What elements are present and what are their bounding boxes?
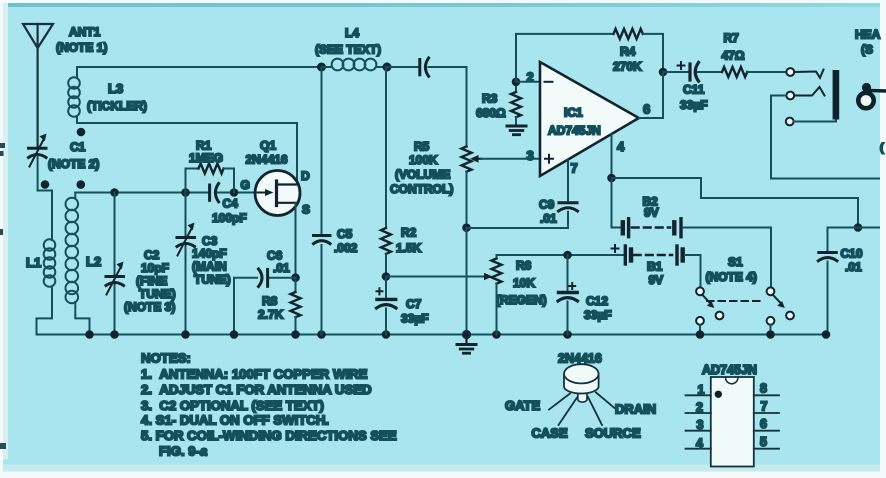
node dot (floating, below L3) — [77, 128, 86, 137]
node L4 left — [317, 63, 326, 72]
node pin2/R3/R4 — [512, 78, 521, 87]
svg-text:(NOTE 3): (NOTE 3) — [124, 300, 175, 314]
wire L1 bottom to ground bus — [37, 287, 53, 335]
inductor L4 — [315, 26, 387, 70]
wire feedback (pin2 up over op-amp) — [516, 34, 614, 82]
capacitor C5 — [314, 67, 358, 335]
capacitor C1 (variable, on antenna lead) — [29, 134, 100, 172]
svg-text:33µF: 33µF — [584, 308, 612, 322]
node bus/R6 — [492, 330, 501, 339]
node bus/ground — [462, 330, 471, 339]
node bus/C3 — [181, 330, 190, 339]
headphone plug icon — [858, 83, 886, 108]
node pin4 — [607, 174, 616, 183]
svg-text:C2: C2 — [144, 248, 160, 262]
svg-text:B1: B1 — [647, 260, 663, 274]
2N4416 package drawing — [505, 352, 656, 441]
resistor R7 — [722, 31, 748, 77]
node output/C11 — [659, 68, 668, 77]
svg-text:L3: L3 — [108, 81, 123, 96]
node bus/S1a — [696, 330, 705, 339]
wire L3 top lead — [76, 67, 78, 78]
capacitor C12 (electrolytic) — [558, 255, 612, 335]
svg-text:33µF: 33µF — [680, 98, 708, 112]
node bus/C5 — [317, 330, 326, 339]
resistor R3 — [476, 82, 521, 125]
wire antenna to tank corner — [37, 157, 39, 191]
wire R5 node to ground bus — [466, 228, 468, 335]
node bus/R8 — [291, 330, 300, 339]
wire C9 to R5 node — [467, 212, 569, 228]
svg-text:CONTROL): CONTROL) — [390, 182, 453, 196]
node tank/C2 — [110, 188, 119, 197]
svg-text:.01: .01 — [273, 261, 290, 275]
svg-text:R4: R4 — [620, 45, 636, 59]
wire jack return — [771, 96, 879, 179]
wire B2 to S1 pole 2 — [683, 228, 771, 288]
svg-text:R6: R6 — [516, 259, 532, 273]
svg-text:6: 6 — [760, 417, 767, 431]
wire Q1 source to node — [295, 203, 297, 278]
potentiometer R5 (volume control) — [390, 140, 481, 228]
wire B2 drop — [612, 178, 622, 228]
resistor R2 — [381, 67, 422, 277]
svg-text:HEA: HEA — [855, 28, 881, 42]
svg-text:1MEG: 1MEG — [189, 151, 223, 165]
svg-text:C10: C10 — [841, 247, 863, 261]
wire pin 7 to C9 — [567, 160, 569, 201]
node bus/C12 — [563, 330, 572, 339]
node bus/C6 — [230, 330, 239, 339]
node gate/R1/C4 — [230, 188, 239, 197]
svg-text:(MAIN: (MAIN — [192, 260, 227, 274]
wire regen node to R6 wiper — [386, 276, 486, 278]
resistor R1 — [186, 139, 235, 193]
svg-text:S1: S1 — [728, 255, 743, 269]
svg-text:TUNE): TUNE) — [194, 273, 231, 287]
wire L2 top to tank rail — [74, 193, 76, 199]
node bus/C7 — [382, 330, 391, 339]
svg-text:(FINE: (FINE — [136, 274, 167, 288]
capacitor C4 — [210, 184, 247, 226]
svg-text:3: 3 — [527, 148, 534, 163]
svg-text:7: 7 — [761, 400, 768, 414]
svg-text:L4: L4 — [345, 26, 359, 40]
wire tank rail (L2 to C4) — [75, 192, 208, 194]
capacitor C11 (electrolytic) — [663, 62, 708, 112]
svg-text:2: 2 — [696, 401, 703, 415]
svg-text:C11: C11 — [683, 83, 705, 97]
battery B2 — [623, 195, 681, 237]
wire C8 to R5 top — [429, 67, 467, 147]
inductor L2 — [66, 198, 102, 304]
wire C6 left to ground bus — [233, 278, 235, 335]
svg-text:3. C2 OPTIONAL (SEE TEXT): 3. C2 OPTIONAL (SEE TEXT) — [141, 398, 324, 413]
svg-text:4. S1- DUAL ON OFF SWITCH.: 4. S1- DUAL ON OFF SWITCH. — [141, 413, 329, 428]
svg-text:FIG. 9-a: FIG. 9-a — [159, 444, 207, 459]
transistor Q1 2N4416 (JFET) — [241, 139, 311, 217]
wire L3 bottom lead — [76, 116, 78, 123]
wire L4 to C8 — [387, 66, 418, 68]
node bus/S1b — [766, 330, 775, 339]
node L4 right — [383, 63, 392, 72]
svg-text:C4: C4 — [223, 197, 239, 211]
wire C10 top rail — [828, 227, 880, 229]
svg-text:R7: R7 — [724, 31, 740, 45]
svg-text:(SEE TEXT): (SEE TEXT) — [315, 43, 381, 57]
wire B1 to S1 pole 1 — [685, 255, 701, 287]
svg-text:(REGEN): (REGEN) — [496, 293, 547, 307]
svg-text:3: 3 — [697, 418, 704, 432]
capacitor C9 — [539, 198, 578, 226]
node R5/C9 — [462, 223, 471, 232]
AD745JN package drawing — [686, 363, 780, 467]
notes text block — [141, 351, 397, 459]
svg-text:140pF: 140pF — [192, 247, 227, 261]
svg-text:(VOLUME: (VOLUME — [395, 168, 450, 182]
svg-text:TUNE): TUNE) — [139, 287, 176, 301]
wire pin 6 to output node — [639, 72, 663, 118]
node tank/C3/R1 — [181, 188, 190, 197]
svg-text:C1: C1 — [70, 140, 86, 154]
svg-text:Q1: Q1 — [260, 139, 276, 153]
svg-text:2. ADJUST C1 FOR ANTENNA USED: 2. ADJUST C1 FOR ANTENNA USED — [141, 382, 372, 397]
svg-text:R5: R5 — [414, 140, 430, 154]
svg-text:(S: (S — [861, 43, 873, 57]
svg-text:1. ANTENNA: 100FT COPPER WIRE: 1. ANTENNA: 100FT COPPER WIRE — [141, 367, 368, 382]
node output-return/C10 — [854, 223, 863, 232]
svg-text:IC1: IC1 — [564, 106, 583, 120]
svg-text:1: 1 — [698, 383, 705, 397]
wire L2 bottom to ground bus — [75, 302, 89, 335]
wire supply rail R6/C12/B1 — [497, 254, 623, 256]
wire pin4 node to right side — [612, 178, 859, 228]
svg-text:10pF: 10pF — [141, 261, 169, 275]
svg-text:7: 7 — [571, 161, 578, 176]
svg-text:NOTES:: NOTES: — [141, 351, 191, 366]
ground bus wire — [37, 334, 828, 336]
svg-text:S: S — [302, 203, 310, 217]
svg-text:R8: R8 — [262, 294, 278, 308]
svg-text:100K: 100K — [409, 153, 438, 167]
svg-text:C12: C12 — [586, 294, 608, 308]
node bus/C2 — [110, 330, 119, 339]
svg-text:2N4416: 2N4416 — [246, 153, 288, 167]
svg-text:.002: .002 — [334, 241, 358, 255]
svg-text:(NOTE 1): (NOTE 1) — [56, 41, 107, 55]
svg-text:680Ω: 680Ω — [476, 106, 506, 120]
capacitor C2 (variable, fine tune) — [106, 193, 176, 335]
capacitor C8 (unlabeled) — [420, 58, 429, 76]
svg-text:6: 6 — [643, 102, 650, 117]
node source/C6/R8 — [291, 273, 300, 282]
svg-text:C7: C7 — [406, 297, 422, 311]
wire R4 to output node — [643, 34, 663, 72]
node dot (floating, left) — [41, 180, 50, 189]
inductor L3 (tickler) — [68, 77, 147, 117]
switch S1 (dual) — [696, 255, 794, 335]
ground (main) — [457, 335, 476, 354]
node dot (floating, right) — [77, 180, 86, 189]
svg-text:R2: R2 — [401, 226, 417, 240]
battery B1 — [612, 245, 683, 287]
wire R5 wiper to pin 3 — [481, 158, 540, 160]
svg-text:L1: L1 — [26, 255, 41, 270]
ground (R3) — [507, 126, 526, 135]
node C12/rail — [563, 251, 572, 260]
node bus/C10 — [822, 330, 831, 339]
capacitor C6 — [234, 249, 296, 287]
wire pin 2 — [516, 81, 540, 83]
svg-text:SOURCE: SOURCE — [585, 426, 641, 441]
resistor R4 — [613, 29, 643, 74]
headphone jack J1 — [786, 68, 839, 125]
svg-text:47Ω: 47Ω — [722, 49, 745, 63]
svg-text:(NOTE 4): (NOTE 4) — [706, 270, 757, 284]
wire C4 to Q1 gate — [218, 192, 257, 194]
wire drain rail L3 bottom to Q1 drain — [77, 123, 297, 185]
svg-text:33µF: 33µF — [401, 312, 429, 326]
svg-text:L2: L2 — [86, 254, 101, 269]
antenna ANT1 — [23, 24, 107, 147]
svg-text:CASE: CASE — [532, 426, 568, 441]
capacitor C10 — [818, 228, 863, 335]
svg-text:10K: 10K — [513, 276, 535, 290]
svg-text:ANT1: ANT1 — [69, 25, 101, 39]
svg-text:DRAIN: DRAIN — [615, 402, 656, 417]
svg-text:(TICKLER): (TICKLER) — [87, 99, 147, 113]
inductor L1 — [26, 239, 55, 287]
svg-text:.01: .01 — [845, 260, 862, 274]
capacitor C7 (electrolytic) — [377, 277, 429, 335]
svg-text:(: ( — [880, 142, 884, 154]
svg-text:G: G — [241, 178, 250, 192]
svg-text:D: D — [301, 169, 310, 183]
svg-text:(NOTE 2): (NOTE 2) — [48, 157, 99, 171]
op-amp IC1 AD745JN — [540, 62, 639, 176]
wire C11 to R7 — [698, 71, 722, 73]
wire top rail L3 to L4 — [77, 66, 322, 68]
potentiometer R6 (regen) — [492, 255, 547, 335]
svg-text:AD745JN: AD745JN — [548, 124, 601, 138]
svg-text:2: 2 — [527, 70, 534, 85]
svg-text:9V: 9V — [649, 273, 664, 287]
svg-text:9V: 9V — [644, 206, 659, 220]
svg-text:C9: C9 — [539, 198, 555, 212]
svg-text:R3: R3 — [482, 92, 498, 106]
svg-text:GATE: GATE — [505, 398, 540, 413]
svg-text:4: 4 — [617, 139, 625, 154]
svg-text:AD745JN: AD745JN — [702, 363, 757, 377]
svg-text:270K: 270K — [613, 60, 642, 74]
wire R7 to jack tip — [747, 71, 786, 73]
svg-text:5. FOR COIL-WINDING DIRECTIONS: 5. FOR COIL-WINDING DIRECTIONS SEE — [141, 428, 397, 443]
svg-text:1.5K: 1.5K — [396, 241, 422, 255]
wire pin 4 — [611, 134, 613, 178]
svg-text:C5: C5 — [337, 227, 353, 241]
node R2/C7/regen — [382, 272, 391, 281]
svg-text:5: 5 — [760, 435, 767, 449]
svg-text:2.7K: 2.7K — [258, 308, 284, 322]
svg-text:4: 4 — [696, 437, 703, 451]
svg-text:.01: .01 — [540, 212, 557, 226]
capacitor C3 (variable, main tune) — [177, 193, 231, 335]
resistor R8 — [258, 278, 301, 335]
svg-text:8: 8 — [760, 382, 767, 396]
node bus/L2 — [85, 330, 94, 339]
svg-text:100pF: 100pF — [212, 211, 247, 225]
